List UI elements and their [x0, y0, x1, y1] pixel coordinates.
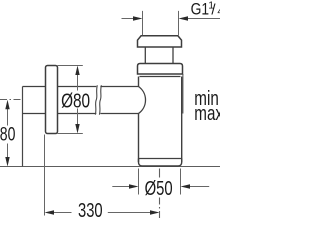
- G1 1/4 extension line left: [142, 11, 144, 35]
- diameter 50 dimension line with arrows: [112, 186, 129, 188]
- 330 dimension line with arrows: [54, 212, 72, 214]
- G1 1/4 dimension line right with arrow: [187, 18, 220, 20]
- diameter 50 extension lines: [138, 169, 140, 195]
- 80 dimension line with arrows: [7, 109, 9, 126]
- cup seam line: [139, 158, 182, 160]
- trap body top edge: [140, 76, 181, 78]
- trap centerline: [159, 169, 161, 178]
- wall line: [22, 87, 24, 167]
- G1 1/4 extension line right: [178, 11, 180, 35]
- svg-text:max: max: [194, 103, 220, 125]
- 330 extension line: [44, 135, 46, 216]
- sleeve outer edge right: [182, 74, 184, 114]
- pipe-body intersection arc: [139, 87, 146, 114]
- top nut: [138, 36, 182, 47]
- diameter 80 dimension line with arrows: [77, 75, 79, 91]
- collar nut: [138, 64, 183, 75]
- horizontal pipe left segment: [58, 86, 97, 88]
- svg-text:4: 4: [217, 6, 220, 18]
- svg-text:G1: G1: [191, 0, 210, 19]
- diameter 80 extension lines: [58, 65, 83, 67]
- G1 1/4 dimension line left with arrow: [122, 18, 135, 20]
- trap body right wall: [181, 77, 183, 163]
- trap body left wall: [138, 77, 140, 163]
- horizontal pipe right segment: [100, 86, 138, 88]
- pipe break symbol: [95, 85, 97, 114]
- svg-text:Ø80: Ø80: [61, 90, 90, 112]
- svg-text:/: /: [211, 2, 216, 19]
- svg-text:80: 80: [0, 125, 15, 146]
- pipe centerline left: [0, 99, 23, 101]
- svg-text:Ø50: Ø50: [145, 178, 173, 200]
- wall flange: [46, 66, 58, 134]
- reference floor line: [0, 166, 220, 168]
- svg-text:330: 330: [78, 200, 103, 220]
- pipe stub into wall: [23, 86, 46, 88]
- neck tube: [144, 47, 146, 63]
- cup bottom cap: [139, 159, 182, 167]
